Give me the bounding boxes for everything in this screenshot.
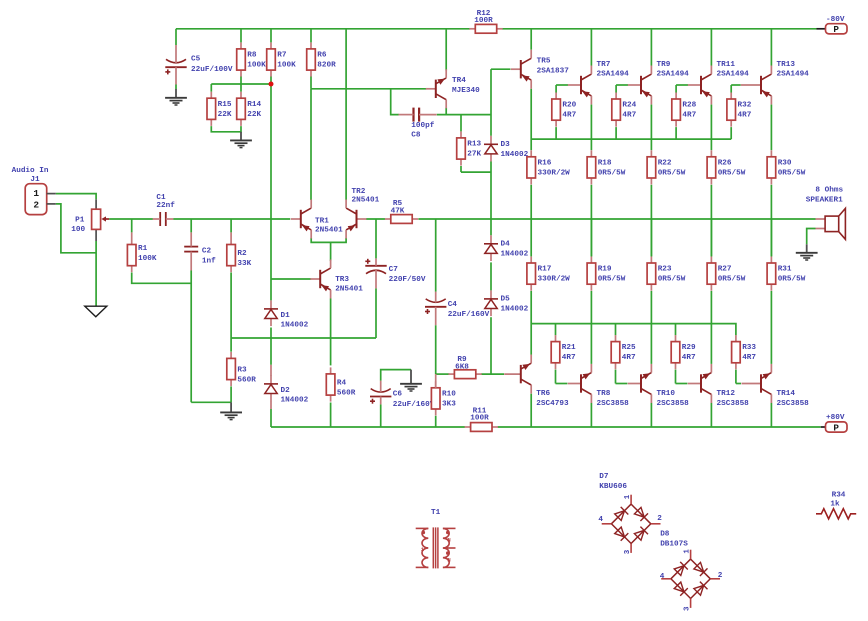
wire bias vertical R7 to D1/TR3 (270, 84, 272, 300)
resistor R25 (611, 335, 636, 369)
wire R7 top (270, 29, 272, 43)
svg-text:4R7: 4R7 (682, 354, 696, 362)
wire TR4 emitter down (445, 108, 447, 115)
svg-text:4R7: 4R7 (622, 112, 636, 120)
svg-text:TR3: TR3 (335, 276, 349, 284)
svg-text:0R5/5W: 0R5/5W (718, 169, 746, 177)
svg-text:100: 100 (71, 226, 85, 234)
R10 top pin (435, 374, 437, 388)
svg-text:2SA1494: 2SA1494 (597, 71, 630, 79)
resistor R14 (237, 92, 262, 126)
wire NPN collector down 0 (590, 403, 592, 427)
resistor R16 (527, 150, 570, 184)
svg-text:820R: 820R (317, 62, 336, 70)
svg-text:2SA1494: 2SA1494 (777, 71, 810, 79)
wire NPN emitter up 1 (650, 291, 652, 364)
svg-text:0R5/5W: 0R5/5W (718, 276, 746, 284)
resistor R18 (587, 150, 626, 184)
wire PNP emitter down 0 (590, 105, 592, 151)
diode D3 (484, 136, 529, 162)
resistor R10 (431, 381, 456, 415)
svg-text:R3: R3 (237, 366, 247, 374)
svg-text:2: 2 (657, 515, 662, 523)
wire R8 top (240, 29, 242, 43)
capacitor C6 (370, 381, 435, 410)
svg-text:220F/50V: 220F/50V (389, 276, 426, 284)
svg-text:27K: 27K (467, 151, 481, 159)
svg-text:R25: R25 (622, 344, 636, 352)
diode D1 (264, 300, 309, 329)
svg-text:1: 1 (684, 549, 692, 554)
svg-text:1: 1 (624, 494, 632, 499)
svg-text:T1: T1 (431, 509, 441, 517)
svg-text:D3: D3 (501, 141, 511, 149)
wire output row (418, 218, 815, 220)
wire C5 top (175, 29, 177, 45)
wire TR1 collector (310, 89, 312, 200)
svg-text:0R5/5W: 0R5/5W (658, 276, 686, 284)
svg-text:1N4002: 1N4002 (501, 250, 529, 258)
svg-text:2SA1837: 2SA1837 (537, 67, 570, 75)
svg-text:R26: R26 (718, 159, 732, 167)
svg-text:R22: R22 (658, 159, 672, 167)
wire PNP emitter down 3 (770, 105, 772, 151)
wire TR3 base row (271, 278, 311, 280)
capacitor C7 (365, 258, 426, 288)
wire NPN emitter up 2 (710, 291, 712, 364)
wire feedback row 338 (231, 337, 376, 339)
wire PNP emitter down 2 (710, 105, 712, 151)
svg-text:100K: 100K (138, 255, 157, 263)
svg-text:TR7: TR7 (597, 61, 611, 69)
svg-text:2SC3858: 2SC3858 (777, 400, 810, 408)
svg-text:R16: R16 (538, 159, 552, 167)
transistor TR7 (568, 61, 629, 104)
resistor R26 (707, 150, 746, 184)
svg-text:TR14: TR14 (777, 390, 796, 398)
wire TR4 emitter to rail (445, 29, 447, 71)
wire base res top 1 (615, 85, 617, 93)
wire C2 bottom down (190, 271, 192, 403)
svg-text:TR13: TR13 (777, 61, 796, 69)
svg-text:0R5/5W: 0R5/5W (778, 276, 806, 284)
svg-text:C5: C5 (191, 55, 201, 63)
wire R3 bottom (230, 386, 232, 402)
resistor R17 (527, 257, 570, 291)
wire D1/D2 link (270, 338, 272, 365)
wire base res bottom 1 (615, 127, 617, 139)
resistor R28 (672, 93, 697, 127)
transistor TR6 (504, 355, 569, 408)
wire NPN emitter up 3 (770, 291, 772, 364)
resistor R31 (767, 257, 806, 291)
wire emitter bus tap to TR3 (330, 242, 332, 261)
svg-text:TR11: TR11 (717, 61, 736, 69)
wire C6 top row (381, 370, 411, 381)
wire C2 top (190, 219, 192, 232)
svg-text:D7: D7 (599, 473, 609, 481)
wire R16 bottom to row (530, 185, 532, 219)
ground (165, 89, 187, 105)
wire output PNP collector 1 (650, 29, 652, 66)
wire 0R5 top bottomside 1 (650, 219, 652, 256)
wire D3 to D4 (490, 162, 492, 236)
svg-text:TR5: TR5 (537, 57, 551, 65)
resistor R30 (767, 150, 806, 184)
wire speaker minus (807, 229, 816, 245)
wire base res bottom corner 0 (555, 370, 557, 384)
resistor R27 (707, 257, 746, 291)
resistor R13 (457, 131, 482, 165)
bridge rectifier D8 (660, 530, 723, 611)
ground (220, 402, 242, 419)
D2 bottom pin ext (270, 401, 272, 409)
svg-text:22uF/160V: 22uF/160V (393, 401, 435, 409)
svg-text:KBU606: KBU606 (599, 483, 627, 491)
svg-text:4: 4 (598, 516, 603, 524)
svg-text:2SC3858: 2SC3858 (717, 400, 750, 408)
resistor R11 (465, 407, 498, 431)
svg-text:TR4: TR4 (452, 77, 466, 85)
R2 top pin (230, 232, 232, 238)
wire TR1/TR2 emitter bus (311, 238, 346, 243)
ground (796, 244, 818, 260)
svg-text:22K: 22K (218, 111, 232, 119)
wire base res top b 1 (615, 324, 617, 336)
resistor R9 (448, 356, 481, 378)
resistor R32 (727, 93, 752, 127)
svg-text:2: 2 (718, 572, 723, 580)
svg-text:1N4002: 1N4002 (281, 322, 309, 330)
svg-text:TR8: TR8 (597, 390, 611, 398)
diode D5 (484, 290, 529, 316)
svg-text:D2: D2 (281, 387, 291, 395)
wire R8 bottom / R14 top (240, 76, 242, 91)
resistor R6 (307, 42, 336, 76)
wire R15/R14 bottom row (211, 126, 241, 132)
svg-text:1N4002: 1N4002 (501, 151, 529, 159)
wire R1 bottom row (132, 273, 192, 284)
wire ground row 402 (191, 401, 231, 403)
svg-text:R30: R30 (778, 159, 792, 167)
wire base res top 2 (675, 85, 677, 93)
wire NPN base 2 (676, 383, 688, 385)
svg-text:330R/2W: 330R/2W (538, 169, 571, 177)
wire R6 bottom (310, 76, 312, 89)
wire TR2 base to R5 (366, 218, 385, 220)
svg-text:100pf: 100pf (411, 122, 434, 130)
svg-text:2SA1494: 2SA1494 (717, 71, 750, 79)
wire R2 to R3 (230, 273, 232, 352)
wire D1 bottom (270, 328, 272, 339)
bridge rectifier D7 (598, 473, 662, 554)
svg-text:TR1: TR1 (315, 217, 329, 225)
svg-text:R6: R6 (317, 52, 327, 60)
svg-text:1k: 1k (830, 500, 840, 508)
wire P1 bottom to ground (95, 241, 97, 306)
svg-text:100R: 100R (470, 415, 489, 423)
svg-text:TR6: TR6 (536, 390, 550, 398)
svg-text:R15: R15 (218, 101, 232, 109)
svg-text:C8: C8 (411, 132, 421, 140)
svg-text:D5: D5 (501, 296, 511, 304)
svg-text:+80V: +80V (826, 414, 845, 422)
wire TR2 collector (345, 29, 347, 200)
svg-text:N: N (447, 557, 450, 564)
wire TR13 base corner (730, 85, 732, 93)
svg-text:2N5401: 2N5401 (315, 227, 343, 235)
svg-text:R10: R10 (442, 390, 456, 398)
wire C7 top (375, 219, 377, 258)
wire base res top b 0 (555, 324, 557, 336)
svg-text:MJE340: MJE340 (452, 87, 480, 95)
potentiometer P1 (71, 199, 109, 241)
svg-text:R1: R1 (138, 245, 148, 253)
svg-text:C7: C7 (389, 266, 399, 274)
svg-text:1N4002: 1N4002 (501, 305, 529, 313)
svg-text:22nf: 22nf (156, 202, 175, 210)
wire PNP emitter down 1 (650, 105, 652, 151)
wire C4 top (435, 219, 437, 292)
wire TR5 base net vertical (490, 69, 492, 136)
svg-text:4R7: 4R7 (738, 112, 752, 120)
svg-text:6K8: 6K8 (455, 363, 469, 371)
transformer T1 (416, 509, 456, 569)
svg-text:DB107S: DB107S (660, 540, 688, 548)
svg-text:22uF/100V: 22uF/100V (191, 66, 233, 74)
svg-text:R19: R19 (598, 266, 612, 274)
wire row R8/R7 bias (211, 83, 271, 85)
wire base res top b 2 (675, 324, 677, 336)
resistor R15 (207, 92, 232, 126)
wire R13 bottom (460, 166, 462, 172)
wire TR3 emitter to R4 (330, 299, 332, 366)
wire top rail left (176, 28, 470, 30)
svg-text:C1: C1 (156, 194, 166, 202)
junction dot (269, 82, 274, 87)
wire TR6 emitter up (530, 291, 532, 355)
svg-text:R24: R24 (622, 102, 636, 110)
svg-text:R4: R4 (337, 379, 347, 387)
diode D4 (484, 235, 529, 261)
svg-text:2N5401: 2N5401 (352, 197, 380, 205)
power port -80V (817, 16, 848, 35)
transistor TR8 (568, 364, 629, 408)
transistor TR12 (688, 364, 749, 408)
resistor R34 (816, 492, 856, 519)
svg-text:P: P (833, 422, 839, 433)
wire J1 pin2 down (56, 204, 96, 253)
capacitor C2 (184, 232, 216, 270)
svg-text:R33: R33 (742, 344, 756, 352)
svg-text:4R7: 4R7 (562, 354, 576, 362)
capacitor C5 (165, 45, 233, 85)
transistor TR13 (741, 61, 809, 104)
svg-text:C2: C2 (202, 248, 212, 256)
wire PNP base 1 (616, 84, 628, 86)
svg-text:D1: D1 (281, 312, 291, 320)
wire output PNP collector 3 (770, 29, 772, 66)
wire NPN collector down 2 (710, 403, 712, 427)
resistor R2 (227, 238, 252, 272)
wire top rail right (502, 28, 817, 30)
wire base res bottom 2 (675, 127, 677, 139)
svg-text:R29: R29 (682, 344, 696, 352)
transistor TR14 (742, 364, 810, 408)
resistor R21 (551, 335, 576, 369)
svg-text:D4: D4 (501, 241, 511, 249)
svg-text:3K3: 3K3 (442, 400, 456, 408)
wire R2 top (230, 219, 232, 232)
svg-text:R17: R17 (538, 266, 552, 274)
svg-text:R18: R18 (598, 159, 612, 167)
svg-text:0R5/5W: 0R5/5W (658, 169, 686, 177)
svg-text:R14: R14 (247, 101, 261, 109)
wire PNP base 0 (556, 84, 568, 86)
wire base res bottom corner 1 (615, 370, 617, 384)
wire C5 bottom (175, 85, 177, 90)
wire bottom rail left (271, 426, 465, 428)
wire signal row left (109, 218, 153, 220)
svg-text:2: 2 (33, 200, 39, 211)
svg-text:2N5401: 2N5401 (335, 285, 363, 293)
wire PNP base 2 (676, 84, 688, 86)
svg-text:4: 4 (660, 573, 665, 581)
svg-text:R13: R13 (467, 141, 481, 149)
resistor R22 (647, 150, 686, 184)
wire R9 row right (481, 373, 504, 375)
wire 0R5 to output row 3 (770, 185, 772, 257)
svg-text:R32: R32 (738, 102, 752, 110)
transistor TR11 (688, 61, 749, 104)
svg-text:P1: P1 (75, 216, 85, 224)
svg-text:R21: R21 (562, 344, 576, 352)
D2 top pin (270, 365, 272, 376)
wire J1 pin1 to P1 (56, 194, 96, 200)
wire C8 right to D string (437, 114, 491, 116)
svg-text:100K: 100K (277, 62, 296, 70)
svg-text:2SC3858: 2SC3858 (597, 400, 630, 408)
svg-text:P: P (833, 24, 839, 35)
transistor TR1 (291, 200, 343, 239)
wire output PNP collector 2 (710, 29, 712, 66)
wire TR5 collector (530, 29, 532, 50)
wire NPN collector down 1 (650, 403, 652, 427)
svg-text:4R7: 4R7 (682, 112, 696, 120)
wire bottom rail right (498, 426, 821, 428)
wire 0R5 to output row 1 (650, 185, 652, 257)
wire R13 top (460, 115, 462, 132)
svg-text:100K: 100K (247, 62, 266, 70)
wire TR14 base (736, 383, 741, 385)
wire TR5 emitter to R16 (530, 89, 532, 151)
svg-text:R34: R34 (832, 492, 846, 500)
resistor R7 (267, 42, 296, 76)
R1 top pin (131, 232, 133, 238)
connector J1 (12, 167, 56, 214)
svg-text:R28: R28 (682, 102, 696, 110)
svg-text:330R/2W: 330R/2W (538, 276, 571, 284)
svg-text:R7: R7 (277, 52, 287, 60)
wire bottom bus (531, 324, 736, 336)
svg-text:33K: 33K (237, 260, 251, 268)
speaker SPEAKER1 (806, 186, 846, 239)
wire base res top 0 (555, 85, 557, 93)
svg-text:TR2: TR2 (352, 188, 366, 196)
wire 0R5 top bottomside 0 (590, 219, 592, 256)
transistor TR5 (511, 50, 569, 89)
svg-text:1N4002: 1N4002 (281, 397, 309, 405)
svg-text:3: 3 (684, 606, 692, 611)
transistor TR9 (628, 61, 689, 104)
svg-text:1: 1 (33, 188, 39, 199)
svg-text:560R: 560R (337, 389, 356, 397)
transistor TR4 (426, 69, 480, 108)
resistor R33 (732, 335, 757, 369)
svg-text:3: 3 (624, 549, 632, 554)
resistor R3 (227, 352, 256, 386)
resistor R23 (647, 257, 686, 291)
wire D2 bottom (270, 409, 272, 427)
wire NPN collector down 3 (770, 403, 772, 427)
resistor R1 (127, 238, 156, 272)
svg-text:R27: R27 (718, 266, 732, 274)
resistor R8 (237, 42, 266, 76)
wire R17 top (530, 219, 532, 256)
wire R15 top (210, 84, 212, 92)
wire base res bottom 0 (555, 127, 557, 139)
power port +80V (821, 414, 847, 433)
resistor R12 (469, 10, 502, 33)
wire NPN emitter up 0 (590, 291, 592, 364)
wire row R13/D3 (461, 171, 491, 173)
resistor R29 (671, 335, 696, 369)
wire R6 top (310, 29, 312, 43)
wire 0R5 to output row 0 (590, 185, 592, 257)
wire R10 bottom (435, 416, 437, 427)
svg-text:R20: R20 (562, 102, 576, 110)
wire top bus (531, 138, 731, 140)
svg-text:R2: R2 (237, 250, 247, 258)
wire D4 to D5 (490, 262, 492, 290)
wire signal row to TR1 (173, 218, 290, 220)
svg-text:R23: R23 (658, 266, 672, 274)
wire C6 bottom (380, 404, 382, 427)
ground (85, 306, 107, 317)
resistor R19 (587, 257, 626, 291)
svg-text:TR12: TR12 (717, 390, 736, 398)
svg-text:SPEAKER1: SPEAKER1 (806, 196, 843, 204)
wire base res bottom corner 2 (675, 370, 677, 384)
svg-text:0R5/5W: 0R5/5W (598, 276, 626, 284)
wire R33 bottom corner (735, 370, 737, 384)
wire C7 bottom to row (375, 288, 377, 338)
wire TR5 base (491, 68, 510, 70)
wire R7 bottom (270, 76, 272, 84)
svg-text:R8: R8 (247, 52, 257, 60)
wire TR4 base row (311, 88, 426, 90)
wire output PNP collector 0 (590, 29, 592, 66)
wire D5 down to R9 row (490, 317, 492, 374)
capacitor C1 (153, 194, 176, 226)
wire 0R5 top bottomside 2 (710, 219, 712, 256)
wire R4 bottom (330, 403, 332, 428)
svg-text:C6: C6 (393, 391, 403, 399)
svg-text:-80V: -80V (826, 16, 845, 24)
transistor TR10 (628, 364, 689, 408)
wire R32 bottom (730, 127, 732, 139)
transistor TR2 (346, 188, 379, 239)
